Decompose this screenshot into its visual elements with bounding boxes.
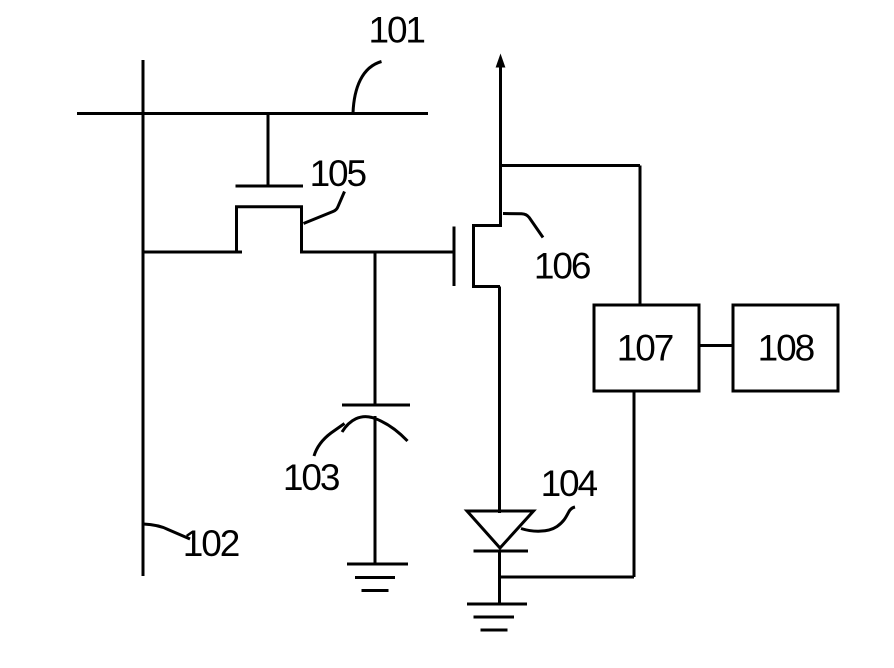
wire drive line 106 to diode xyxy=(498,287,501,514)
transistor Q105 channel top-hat xyxy=(237,207,302,253)
wire branch to box 107 xyxy=(501,164,641,167)
capacitor C103 curved bottom plate xyxy=(342,417,408,441)
wire node to capacitor 103 xyxy=(374,252,377,405)
box 108 xyxy=(733,305,838,391)
diode D104 triangle xyxy=(467,511,534,548)
diode D104 cathode bar xyxy=(474,550,529,553)
svg-text:104: 104 xyxy=(541,463,598,504)
wire drain of 105 to gate of 106 xyxy=(300,251,454,254)
wire source of 105 to data line xyxy=(143,251,242,254)
leader line for 105 xyxy=(304,192,345,224)
svg-text:108: 108 xyxy=(758,328,814,369)
wire scan line horizontal 101 xyxy=(77,112,428,115)
leader line for 102 xyxy=(144,524,191,539)
capacitor C103 top plate xyxy=(342,404,410,407)
leader line for 101 xyxy=(353,62,382,114)
transistor Q106 channel top-hat xyxy=(474,226,502,287)
svg-text:106: 106 xyxy=(534,246,590,287)
ground symbol under diode xyxy=(467,603,527,606)
wire feedback to box 107 xyxy=(500,576,635,579)
svg-text:107: 107 xyxy=(617,328,673,369)
transistor Q105 gate bar xyxy=(236,185,304,188)
wire gate stem of transistor 105 xyxy=(267,114,270,186)
wire connector between 107 and 108 xyxy=(699,344,733,347)
svg-text:101: 101 xyxy=(368,10,424,51)
transistor Q106 gate bar xyxy=(453,227,456,287)
leader line for 103 xyxy=(314,424,345,457)
wire diode to ground xyxy=(498,550,501,604)
svg-text:102: 102 xyxy=(183,523,239,564)
leader line for 104 xyxy=(521,507,575,531)
box 107 xyxy=(594,305,699,391)
svg-text:105: 105 xyxy=(310,153,367,194)
leader line for 106 xyxy=(503,214,543,238)
wire capacitor to ground xyxy=(374,416,377,564)
arrow head xyxy=(496,54,506,68)
svg-text:103: 103 xyxy=(283,457,339,498)
wire data line vertical 102 xyxy=(142,60,145,576)
power supply line with arrow xyxy=(499,65,502,227)
ground symbol under capacitor xyxy=(347,563,408,566)
